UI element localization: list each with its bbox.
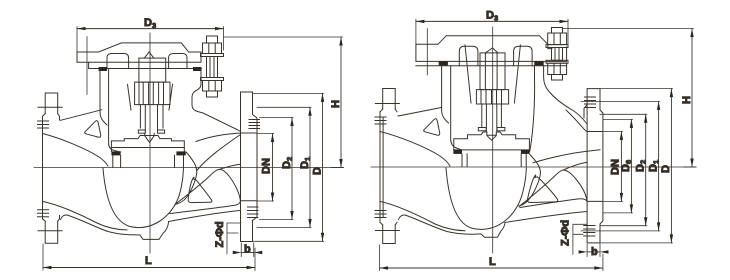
svg-text:b: b	[244, 244, 251, 256]
dim D3 ext left	[76, 27, 78, 54]
outlet inner slant	[520, 199, 587, 208]
nut upper	[203, 43, 222, 54]
stem cap triangle	[485, 48, 498, 53]
bonnet cover	[77, 43, 201, 62]
outlet upper wall	[197, 135, 241, 171]
rib window lower-right	[527, 175, 557, 202]
nozzle bore top	[196, 133, 241, 142]
svg-text:D1: D1	[648, 160, 661, 172]
outlet lower wall swoosh	[175, 169, 240, 204]
washer upper	[201, 54, 224, 57]
right flange bore lines	[587, 132, 603, 202]
svg-text:H: H	[330, 100, 342, 108]
dim D3 ext left	[415, 19, 417, 45]
right flange hatch bottom	[248, 207, 259, 218]
inlet bore bottom	[43, 201, 128, 230]
left flange washer line top	[38, 106, 62, 108]
outer shell bottom	[399, 215, 506, 237]
disc	[454, 132, 530, 150]
left flange thread hatch top	[38, 121, 49, 128]
left flange flare bottom	[380, 222, 397, 225]
svg-text:D6: D6	[620, 160, 633, 172]
right flange hatch top	[249, 120, 260, 129]
outlet outer slant	[169, 211, 240, 222]
right flange outline	[587, 89, 603, 243]
nozzle bore top	[566, 110, 587, 132]
svg-text:L: L	[145, 255, 152, 267]
dim D3 ext right	[223, 27, 225, 51]
collar right	[158, 130, 165, 133]
right flange bore lines	[241, 133, 258, 201]
inlet bore top	[380, 132, 450, 167]
seat right (black)	[176, 151, 185, 155]
dim L	[380, 267, 603, 269]
rib upper-left slant	[398, 108, 442, 117]
svg-text:D3: D3	[486, 10, 498, 23]
centerline horizontal (pipe axis)	[34, 167, 343, 169]
chamber wall right of seat (S-wall)	[175, 152, 197, 205]
left flange face second line	[382, 117, 384, 218]
svg-text:D3: D3	[144, 17, 156, 30]
nut upper	[548, 33, 567, 45]
stem cap block	[139, 58, 166, 82]
flange hub chamfer right valve	[584, 105, 587, 119]
svg-text:DN: DN	[261, 158, 273, 174]
bonnet arm right	[169, 54, 187, 69]
svg-text:L: L	[489, 256, 496, 268]
bonnet bolt centerline left	[426, 29, 428, 75]
nut lower	[203, 81, 222, 92]
neck wall left outer	[442, 66, 449, 123]
packing ribbed block	[135, 82, 170, 105]
left flange thread hatch bottom	[375, 211, 386, 218]
left flange stud top	[45, 93, 58, 114]
bonnet arm left	[459, 46, 478, 65]
cover bolt stack right: stud tip top	[207, 36, 218, 43]
left flange washer line bottom	[38, 230, 62, 232]
body flange line under bonnet	[416, 65, 567, 67]
dim b	[240, 243, 242, 257]
dim H line	[691, 29, 693, 167]
svg-text:Z-Φd: Z-Φd	[560, 220, 572, 246]
outlet lower wall swoosh	[519, 170, 587, 206]
stem cone tip	[487, 133, 496, 140]
outlet inner slant	[170, 202, 240, 214]
seat ring left	[462, 154, 467, 167]
neck right outer	[544, 66, 588, 124]
collar left	[138, 130, 145, 133]
dim D	[322, 93, 324, 241]
dim D2	[645, 114, 647, 225]
neck wall left outer	[100, 69, 107, 126]
left flange stud top	[383, 89, 396, 110]
washer lower	[201, 78, 224, 81]
gasket right (black)	[193, 67, 201, 71]
dim D3 line	[416, 20, 568, 22]
washer lower	[546, 60, 568, 63]
dimension arrowheads right valve	[380, 20, 694, 270]
centerline vertical	[492, 27, 494, 253]
svg-text:D: D	[660, 165, 672, 173]
dim D1	[658, 101, 660, 231]
outlet outer slant	[505, 212, 587, 223]
gasket left (black)	[99, 67, 107, 71]
bonnet cover	[416, 36, 567, 62]
cover bolt stack right: stud tip top	[552, 28, 563, 34]
left flange washer line top	[375, 103, 399, 105]
seat left (black)	[111, 151, 120, 155]
stem cap triangle	[144, 52, 154, 58]
leader Z-Phi-d	[227, 223, 241, 254]
yoke plate right	[514, 45, 520, 103]
yoke plate right	[169, 84, 173, 110]
svg-text:D2: D2	[635, 160, 648, 172]
neck right inner	[530, 66, 535, 152]
outer shell bottom	[61, 215, 169, 239]
left flange face	[379, 112, 381, 223]
stud middle	[552, 48, 563, 61]
yoke plate left	[465, 45, 471, 103]
left flange stud bottom	[45, 221, 58, 243]
stud tip bottom	[207, 91, 218, 97]
right flange hatch bottom	[584, 226, 595, 237]
rib window lower-right	[188, 177, 212, 202]
dim D6	[630, 119, 632, 212]
stud tip bottom	[552, 75, 563, 81]
packing ribbed block	[476, 90, 508, 104]
rib window upper-left	[85, 121, 101, 138]
svg-text:H: H	[681, 96, 693, 104]
dim H line	[340, 37, 342, 167]
rib upper-left slant	[61, 110, 102, 121]
dim L	[43, 267, 255, 269]
left flange face	[42, 116, 44, 219]
dim DN	[272, 134, 274, 202]
left flange stud bottom	[383, 225, 396, 244]
svg-text:D1: D1	[299, 157, 312, 169]
left flange thread hatch top	[375, 117, 386, 124]
inlet bore bottom	[380, 201, 465, 230]
svg-text:D2: D2	[281, 157, 294, 169]
collar left	[478, 128, 486, 131]
collar right	[497, 128, 505, 131]
chamber wall right of seat (S-wall)	[519, 154, 540, 206]
dim H bottom tick	[684, 166, 696, 168]
stem cap block	[480, 53, 505, 90]
left flange flare top	[43, 114, 60, 117]
stud middle	[207, 57, 218, 78]
guide tube	[139, 105, 141, 128]
disc	[111, 136, 184, 152]
washer upper	[546, 45, 568, 48]
seat ring right	[175, 155, 184, 167]
left flange washer line bottom	[375, 230, 399, 232]
dim H top ext	[563, 28, 694, 30]
stem	[485, 104, 487, 131]
dim DN	[620, 131, 622, 201]
svg-text:Z-Φd: Z-Φd	[214, 221, 226, 247]
left flange flare top	[380, 109, 397, 112]
dim D2	[291, 118, 293, 220]
right flange outline	[241, 92, 258, 242]
body flange step left	[89, 62, 99, 68]
svg-text:D: D	[312, 167, 324, 175]
leader Z-Phi-d	[573, 224, 587, 254]
dim D3 ext right	[567, 19, 569, 45]
left flange flare bottom	[43, 219, 60, 222]
inner bowl	[446, 168, 526, 229]
stem cone tip	[145, 133, 154, 142]
nut lower	[548, 63, 567, 74]
dim b	[586, 244, 588, 257]
seat ring left	[113, 155, 121, 167]
bonnet arm right	[514, 46, 533, 65]
neck right outer	[192, 69, 241, 132]
disc bottom	[111, 147, 184, 149]
centerline vertical	[149, 33, 151, 253]
body flange line under bonnet	[99, 68, 202, 70]
bonnet bolt centerline left	[86, 37, 88, 95]
right flange hatch top	[585, 97, 596, 108]
dim D	[670, 89, 672, 243]
rib window upper-left	[424, 119, 440, 136]
outlet upper wall	[533, 150, 600, 163]
neck wall left inner	[451, 66, 462, 150]
inlet bore top	[43, 134, 109, 167]
seat ring right	[521, 154, 526, 167]
dim D3 line	[77, 28, 224, 30]
through-bore interior line	[564, 162, 588, 170]
gasket left (black)	[439, 61, 448, 65]
bonnet arm left	[107, 54, 129, 69]
stem	[144, 105, 146, 131]
dim D1	[309, 107, 311, 227]
left flange back edge bottom	[59, 216, 61, 219]
dimension arrowheads left valve	[43, 37, 343, 269]
seat left (black)	[453, 150, 462, 154]
svg-text:b: b	[591, 246, 598, 258]
inner bowl	[103, 168, 184, 228]
through-bore interior line	[220, 164, 241, 169]
seat right (black)	[521, 150, 530, 154]
dim H bottom tick	[331, 167, 344, 169]
disc bottom	[454, 149, 530, 151]
guide tube	[481, 104, 483, 128]
neck wall left inner	[109, 69, 121, 153]
left flange thread hatch bottom	[38, 210, 49, 217]
dim H top ext	[224, 36, 343, 38]
yoke plate left	[128, 84, 132, 110]
gasket right (black)	[534, 61, 543, 65]
centerline horizontal	[371, 166, 696, 168]
left flange back edge top	[59, 116, 61, 120]
